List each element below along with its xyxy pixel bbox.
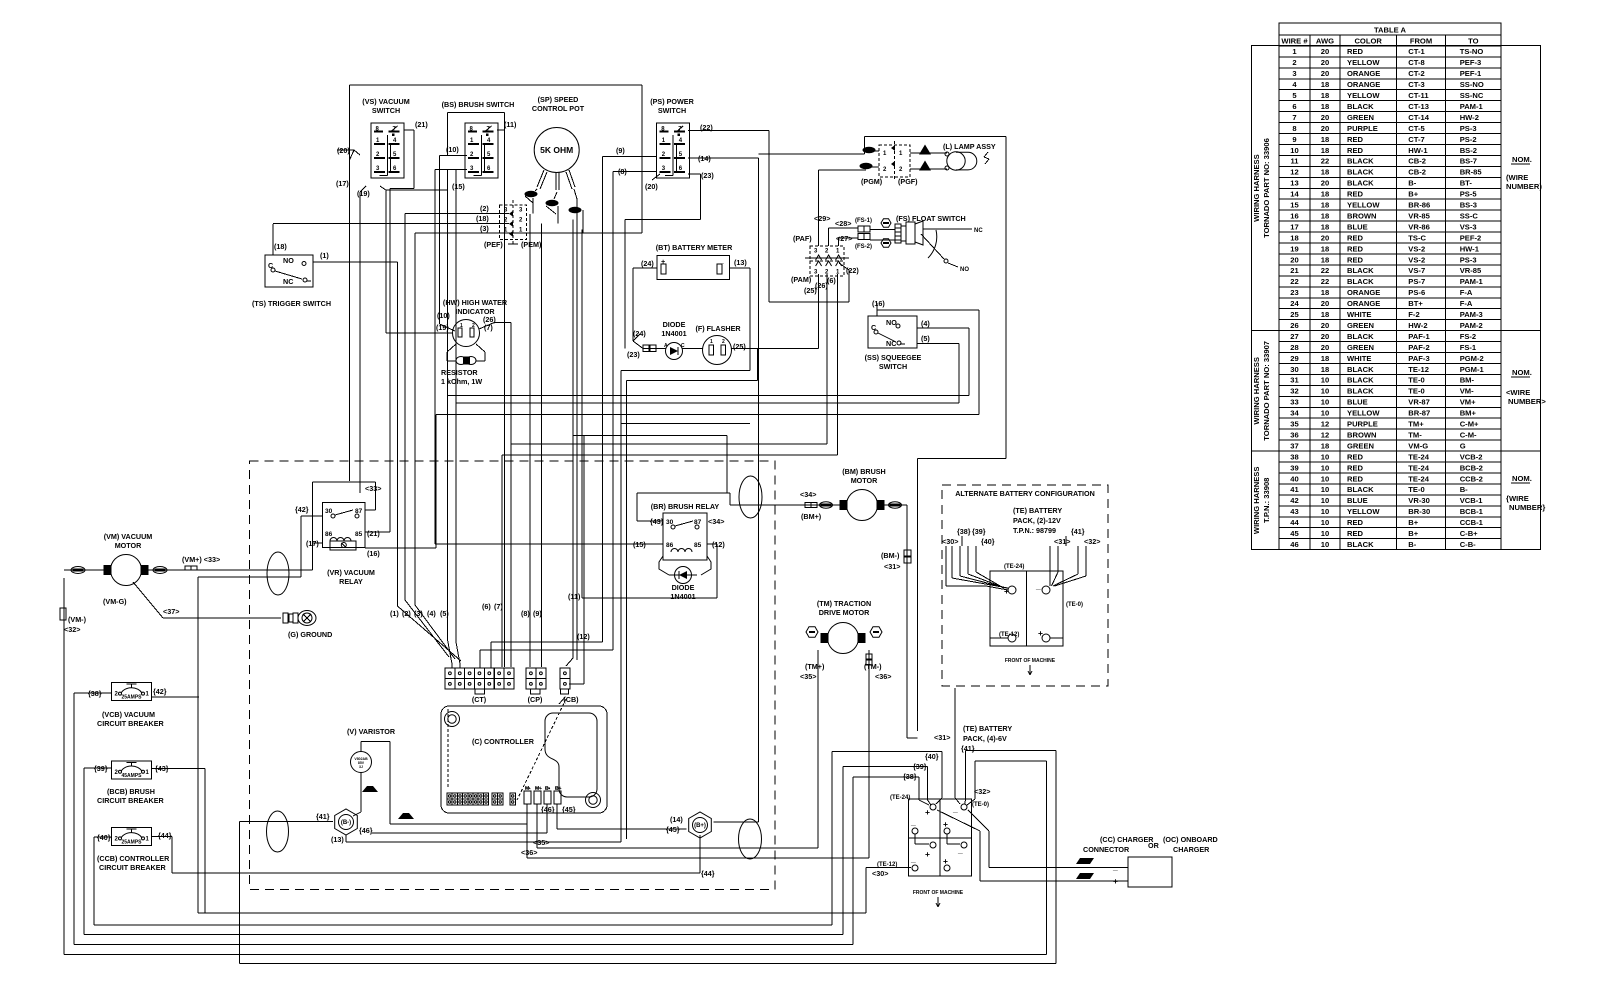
svg-text:86: 86 [325, 531, 333, 538]
svg-text:ORANGE: ORANGE [1347, 80, 1380, 89]
svg-text:CB-2: CB-2 [1408, 157, 1426, 166]
svg-text:32: 32 [1290, 387, 1298, 396]
svg-text:BLACK: BLACK [1347, 168, 1374, 177]
svg-text:(22): (22) [700, 123, 713, 132]
svg-text:1: 1 [146, 770, 150, 776]
svg-text:(23): (23) [701, 171, 714, 180]
svg-text:20: 20 [1290, 255, 1298, 264]
svg-text:25AMPS: 25AMPS [121, 695, 142, 701]
svg-text:{WIRE: {WIRE [1506, 494, 1529, 503]
svg-text:(18): (18) [476, 214, 489, 223]
svg-text:(25): (25) [804, 286, 817, 295]
svg-text:18: 18 [1321, 211, 1329, 220]
svg-text:(18): (18) [274, 242, 287, 251]
svg-text:1: 1 [836, 249, 840, 255]
svg-text:(TM+): (TM+) [805, 662, 825, 671]
svg-text:BS-2: BS-2 [1460, 146, 1477, 155]
svg-text:42: 42 [1290, 496, 1298, 505]
svg-text:BLACK: BLACK [1347, 376, 1374, 385]
svg-text:VS-2: VS-2 [1408, 255, 1425, 264]
svg-text:PAM-1: PAM-1 [1460, 102, 1484, 111]
svg-text:TORNADO PART NO: 33907: TORNADO PART NO: 33907 [1262, 341, 1271, 441]
svg-text:21: 21 [1290, 266, 1299, 275]
svg-text:NO: NO [283, 256, 294, 265]
svg-text:41: 41 [1290, 485, 1299, 494]
svg-text:(9): (9) [533, 609, 542, 618]
svg-text:T.P.N.: 98799: T.P.N.: 98799 [1013, 526, 1056, 535]
svg-text:SWITCH: SWITCH [879, 362, 907, 371]
svg-text:<WIRE: <WIRE [1506, 388, 1530, 397]
svg-text:11: 11 [1290, 157, 1299, 166]
svg-text:17: 17 [1290, 222, 1298, 231]
svg-text:TE-24: TE-24 [1408, 474, 1429, 483]
svg-text:BCB-1: BCB-1 [1460, 507, 1484, 516]
svg-text:20: 20 [1321, 321, 1329, 330]
svg-text:NC: NC [886, 339, 896, 348]
svg-text:PAM-2: PAM-2 [1460, 321, 1483, 330]
svg-text:44: 44 [1290, 518, 1299, 527]
svg-text:(PGM): (PGM) [861, 177, 883, 186]
svg-text:18: 18 [1321, 135, 1329, 144]
svg-text:ORANGE: ORANGE [1347, 299, 1380, 308]
svg-text:{43}: {43} [650, 517, 664, 526]
svg-text:CT-13: CT-13 [1408, 102, 1429, 111]
svg-text:VR-87: VR-87 [1408, 398, 1430, 407]
svg-text:(BT) BATTERY METER: (BT) BATTERY METER [656, 243, 733, 252]
svg-text:2: 2 [883, 167, 887, 173]
svg-text:RED: RED [1347, 452, 1364, 461]
svg-text:M-: M- [525, 786, 531, 792]
svg-text:(FS-1): (FS-1) [855, 218, 872, 224]
svg-text:(4): (4) [427, 609, 436, 618]
svg-text:25AMPS: 25AMPS [121, 839, 142, 845]
svg-text:<31>: <31> [1054, 537, 1070, 546]
svg-text:3: 3 [814, 249, 818, 255]
svg-text:36: 36 [1290, 430, 1298, 439]
svg-text:10: 10 [1321, 463, 1329, 472]
svg-text:1N4001: 1N4001 [670, 592, 695, 601]
svg-text:(16): (16) [872, 299, 885, 308]
svg-text:CONTROL POT: CONTROL POT [532, 104, 585, 113]
svg-text:OR: OR [1148, 841, 1160, 850]
svg-text:2: 2 [472, 323, 475, 329]
svg-text:20: 20 [1321, 343, 1329, 352]
svg-text:PGM-1: PGM-1 [1460, 365, 1485, 374]
svg-text:10: 10 [1321, 409, 1329, 418]
svg-text:40: 40 [1290, 474, 1298, 483]
svg-text:NO: NO [886, 318, 897, 327]
svg-text:VCB-2: VCB-2 [1460, 452, 1483, 461]
svg-text:+: + [1038, 628, 1043, 638]
svg-text:TM-: TM- [1408, 430, 1422, 439]
svg-text:18: 18 [1321, 91, 1329, 100]
svg-text:(20): (20) [337, 146, 350, 155]
svg-text:(8): (8) [618, 167, 627, 176]
svg-text:FROM: FROM [1410, 36, 1432, 45]
svg-text:4: 4 [679, 138, 683, 144]
svg-text:2: 2 [825, 249, 829, 255]
svg-text:CIRCUIT BREAKER: CIRCUIT BREAKER [99, 863, 166, 872]
svg-text:CB-2: CB-2 [1408, 168, 1426, 177]
svg-text:(TE) BATTERY: (TE) BATTERY [1013, 506, 1062, 515]
svg-text:TO: TO [1468, 36, 1479, 45]
svg-text:PACK, (2)-12V: PACK, (2)-12V [1013, 516, 1061, 525]
svg-text:_: _ [957, 845, 963, 855]
svg-text:3: 3 [504, 207, 508, 213]
svg-text:YELLOW: YELLOW [1347, 201, 1380, 210]
svg-text:20: 20 [1321, 113, 1329, 122]
svg-text:CONNECTOR: CONNECTOR [1083, 845, 1130, 854]
svg-text:16: 16 [1290, 211, 1298, 220]
svg-text:2: 2 [115, 692, 119, 698]
svg-text:2: 2 [1292, 58, 1296, 67]
svg-text:C-B-: C-B- [1460, 540, 1476, 549]
svg-text:3: 3 [662, 166, 666, 172]
svg-text:<29>: <29> [814, 214, 830, 223]
svg-text:PS-5: PS-5 [1460, 190, 1478, 199]
svg-text:RELAY: RELAY [339, 577, 363, 586]
svg-text:2: 2 [662, 152, 666, 158]
svg-text:2: 2 [519, 217, 523, 223]
svg-text:10: 10 [1321, 452, 1329, 461]
svg-text:(CC) CHARGER: (CC) CHARGER [1100, 835, 1154, 844]
svg-text:SS-NO: SS-NO [1460, 80, 1484, 89]
svg-text:F-A: F-A [1460, 299, 1473, 308]
svg-text:(VS) VACUUM: (VS) VACUUM [362, 97, 409, 106]
svg-text:(6): (6) [482, 602, 491, 611]
svg-text:28: 28 [1290, 343, 1298, 352]
svg-text:{46}: {46} [541, 805, 555, 814]
svg-text:<33>: <33> [365, 484, 381, 493]
svg-text:YELLOW: YELLOW [1347, 91, 1380, 100]
svg-text:VS-2: VS-2 [1408, 244, 1425, 253]
svg-text:PS-2: PS-2 [1460, 135, 1477, 144]
svg-text:<30>: <30> [872, 869, 888, 878]
svg-text:COLOR: COLOR [1354, 36, 1382, 45]
svg-text:(17): (17) [336, 179, 349, 188]
svg-text:<36>: <36> [521, 848, 537, 857]
svg-text:BLACK: BLACK [1347, 102, 1374, 111]
svg-text:{40}: {40} [925, 752, 939, 761]
svg-text:(8): (8) [521, 609, 530, 618]
svg-text:10: 10 [1321, 376, 1329, 385]
svg-text:FRONT OF MACHINE: FRONT OF MACHINE [1005, 658, 1056, 664]
svg-text:NUMBER): NUMBER) [1506, 182, 1542, 191]
svg-text:VS-7: VS-7 [1408, 266, 1425, 275]
svg-text:GREEN: GREEN [1347, 113, 1374, 122]
svg-text:10: 10 [1321, 529, 1329, 538]
svg-text:BLACK: BLACK [1347, 157, 1374, 166]
svg-text:NUMBER}: NUMBER} [1509, 503, 1545, 512]
svg-text:18: 18 [1321, 146, 1329, 155]
svg-text:BS-3: BS-3 [1460, 201, 1477, 210]
svg-text:RED: RED [1347, 474, 1364, 483]
svg-text:5: 5 [1292, 91, 1297, 100]
svg-text:WHITE: WHITE [1347, 354, 1371, 363]
svg-text:1: 1 [1292, 47, 1297, 56]
svg-text:(7): (7) [494, 602, 503, 611]
svg-text:(SS) SQUEEGEE: (SS) SQUEEGEE [865, 353, 922, 362]
svg-text:1: 1 [146, 692, 150, 698]
svg-text:WHITE: WHITE [1347, 310, 1371, 319]
svg-text:1: 1 [146, 836, 150, 842]
svg-text:1: 1 [836, 270, 840, 276]
svg-text:(VM+) <33>: (VM+) <33> [182, 555, 220, 564]
svg-text:(PAF): (PAF) [793, 234, 812, 243]
svg-text:{44}: {44} [158, 831, 172, 840]
svg-text:2: 2 [115, 836, 119, 842]
svg-text:45AMPS: 45AMPS [121, 773, 142, 779]
svg-text:<32>: <32> [64, 625, 80, 634]
svg-text:<34>: <34> [708, 517, 724, 526]
svg-text:<35>: <35> [800, 672, 816, 681]
svg-text:B+: B+ [1408, 190, 1418, 199]
svg-text:F-A: F-A [1460, 288, 1473, 297]
svg-text:{44}: {44} [701, 869, 715, 878]
svg-text:(2): (2) [480, 204, 489, 213]
svg-text:(11): (11) [568, 592, 581, 601]
svg-text:(BR) BRUSH RELAY: (BR) BRUSH RELAY [651, 502, 720, 511]
svg-text:<31>: <31> [934, 733, 950, 742]
svg-text:HW-1: HW-1 [1408, 146, 1428, 155]
svg-text:RED: RED [1347, 255, 1364, 264]
svg-text:<37>: <37> [163, 607, 179, 616]
svg-text:(TS) TRIGGER SWITCH: (TS) TRIGGER SWITCH [252, 299, 331, 308]
svg-text:CT-8: CT-8 [1408, 58, 1424, 67]
svg-text:GREEN: GREEN [1347, 441, 1374, 450]
svg-text:18: 18 [1321, 310, 1329, 319]
svg-text:4: 4 [1292, 80, 1297, 89]
svg-text:YELLOW: YELLOW [1347, 58, 1380, 67]
svg-text:20: 20 [1321, 124, 1329, 133]
svg-text:PS-7: PS-7 [1408, 277, 1425, 286]
svg-text:33: 33 [1290, 398, 1298, 407]
svg-text:_: _ [910, 817, 916, 827]
svg-text:(15): (15) [633, 540, 646, 549]
svg-text:(VCB) VACUUM: (VCB) VACUUM [102, 710, 155, 719]
svg-text:NC: NC [283, 277, 293, 286]
svg-text:(TE-0): (TE-0) [972, 802, 989, 808]
svg-text:(PGF): (PGF) [898, 177, 918, 186]
svg-text:_: _ [952, 804, 958, 814]
svg-text:15: 15 [1290, 201, 1299, 210]
svg-text:{41}: {41} [1071, 527, 1085, 536]
svg-text:CIRCUIT BREAKER: CIRCUIT BREAKER [97, 796, 164, 805]
svg-text:BLACK: BLACK [1347, 540, 1374, 549]
svg-text:{41}: {41} [316, 812, 330, 821]
svg-text:6: 6 [1292, 102, 1296, 111]
svg-text:SS-NC: SS-NC [1460, 91, 1484, 100]
svg-text:2: 2 [470, 152, 474, 158]
svg-text:DIODE: DIODE [663, 320, 686, 329]
svg-text:(VR) VACUUM: (VR) VACUUM [327, 568, 375, 577]
svg-text:WIRING HARNESS: WIRING HARNESS [1252, 154, 1261, 222]
svg-text:B-: B- [1408, 540, 1416, 549]
svg-text:(19): (19) [436, 323, 449, 332]
svg-text:20: 20 [1321, 332, 1329, 341]
svg-text:{38}: {38} [88, 689, 102, 698]
svg-text:(14): (14) [698, 154, 711, 163]
svg-text:(21): (21) [415, 120, 428, 129]
svg-text:6: 6 [679, 166, 683, 172]
svg-text:BLUE: BLUE [1347, 398, 1368, 407]
svg-text:20: 20 [1321, 233, 1329, 242]
svg-text:(9): (9) [616, 146, 625, 155]
svg-text:(10): (10) [437, 311, 450, 320]
svg-text:(VM) VACUUM: (VM) VACUUM [104, 532, 153, 541]
svg-text:CCB-2: CCB-2 [1460, 474, 1483, 483]
svg-text:BROWN: BROWN [1347, 430, 1377, 439]
svg-text:C: C [268, 261, 273, 270]
svg-text:10: 10 [1321, 398, 1329, 407]
svg-text:RESISTOR: RESISTOR [441, 368, 478, 377]
svg-text:RED: RED [1347, 190, 1364, 199]
svg-text:RED: RED [1347, 244, 1364, 253]
svg-text:A: A [664, 343, 668, 349]
svg-text:PAM-3: PAM-3 [1460, 310, 1483, 319]
svg-text:BT-: BT- [1460, 179, 1473, 188]
svg-text:(17): (17) [306, 539, 319, 548]
svg-text:(12): (12) [577, 632, 590, 641]
svg-text:46: 46 [1290, 540, 1298, 549]
svg-text:(TE-24): (TE-24) [1004, 564, 1024, 570]
svg-text:(TE-12): (TE-12) [877, 862, 897, 868]
svg-text:(VM-G): (VM-G) [103, 597, 127, 606]
svg-text:AWG: AWG [1316, 36, 1334, 45]
svg-text:(TE-0): (TE-0) [1066, 602, 1083, 608]
svg-text:{38}: {38} [957, 527, 971, 536]
svg-text:TABLE A: TABLE A [1374, 25, 1407, 34]
svg-text:{45}: {45} [562, 805, 576, 814]
svg-text:BR-30: BR-30 [1408, 507, 1430, 516]
svg-text:27: 27 [1290, 332, 1298, 341]
svg-text:(19): (19) [357, 189, 370, 198]
svg-text:(CCB) CONTROLLER: (CCB) CONTROLLER [97, 854, 170, 863]
svg-text:{39}: {39} [94, 764, 108, 773]
svg-text:WIRING HARNESS: WIRING HARNESS [1252, 357, 1261, 425]
svg-text:VM-G: VM-G [1408, 441, 1428, 450]
svg-text:5: 5 [679, 152, 683, 158]
svg-text:(14): (14) [670, 815, 683, 824]
svg-text:(G) GROUND: (G) GROUND [288, 630, 332, 639]
svg-text:VS-3: VS-3 [1460, 222, 1477, 231]
svg-text:2: 2 [899, 167, 903, 173]
svg-text:9: 9 [1292, 135, 1296, 144]
svg-text:(PEM): (PEM) [521, 240, 542, 249]
svg-text:22: 22 [1321, 277, 1329, 286]
svg-text:38: 38 [1290, 452, 1298, 461]
svg-text:18: 18 [1321, 80, 1329, 89]
svg-text:<36>: <36> [875, 672, 891, 681]
svg-text:10: 10 [1321, 507, 1329, 516]
svg-text:RED: RED [1347, 135, 1364, 144]
svg-text:NOM.: NOM. [1512, 155, 1532, 164]
svg-text:PEF-2: PEF-2 [1460, 233, 1482, 242]
svg-text:FS-2: FS-2 [1460, 332, 1476, 341]
svg-text:YELLOW: YELLOW [1347, 507, 1380, 516]
svg-text:DRIVE MOTOR: DRIVE MOTOR [819, 608, 870, 617]
svg-text:20: 20 [1321, 299, 1329, 308]
svg-text:<28>: <28> [835, 219, 851, 228]
svg-text:(VM-): (VM-) [68, 615, 87, 624]
svg-text:WIRE #: WIRE # [1281, 36, 1308, 45]
svg-text:NOM.: NOM. [1512, 368, 1532, 377]
svg-text:18: 18 [1321, 201, 1329, 210]
svg-text:(L) LAMP ASSY: (L) LAMP ASSY [943, 142, 996, 151]
svg-text:BR-87: BR-87 [1408, 409, 1430, 418]
svg-text:+: + [925, 807, 930, 817]
svg-text:34: 34 [1290, 409, 1299, 418]
svg-text:(V) VARISTOR: (V) VARISTOR [347, 727, 396, 736]
svg-text:(25): (25) [733, 342, 746, 351]
svg-text:8: 8 [1292, 124, 1296, 133]
svg-text:3: 3 [519, 207, 523, 213]
svg-text:DIODE: DIODE [672, 583, 695, 592]
svg-text:(BM-): (BM-) [881, 551, 900, 560]
svg-text:CT-11: CT-11 [1408, 91, 1429, 100]
svg-text:(12): (12) [712, 540, 725, 549]
svg-text:VR-85: VR-85 [1460, 266, 1482, 275]
svg-text:4: 4 [393, 138, 397, 144]
svg-text:_: _ [1035, 581, 1041, 591]
svg-text:RED: RED [1347, 463, 1364, 472]
svg-text:ORANGE: ORANGE [1347, 69, 1380, 78]
svg-text:(TE-24): (TE-24) [890, 795, 910, 801]
svg-text:<34>: <34> [800, 490, 816, 499]
svg-text:C-B+: C-B+ [1460, 529, 1478, 538]
svg-text:31: 31 [1290, 376, 1299, 385]
svg-text:BLACK: BLACK [1347, 387, 1374, 396]
svg-text:SS-C: SS-C [1460, 211, 1479, 220]
svg-text:22: 22 [1290, 277, 1298, 286]
svg-text:C: C [681, 343, 685, 349]
svg-text:18: 18 [1321, 102, 1329, 111]
svg-text:<35>: <35> [533, 838, 549, 847]
svg-text:PEF-1: PEF-1 [1460, 69, 1482, 78]
svg-text:T.P.N.: 33908: T.P.N.: 33908 [1262, 478, 1271, 523]
svg-text:(TE) BATTERY: (TE) BATTERY [963, 724, 1012, 733]
svg-text:2: 2 [722, 339, 725, 345]
svg-text:SWITCH: SWITCH [372, 106, 400, 115]
svg-text:VR-85: VR-85 [1408, 211, 1430, 220]
svg-text:GREEN: GREEN [1347, 343, 1374, 352]
svg-text:10: 10 [1321, 474, 1329, 483]
svg-text:10: 10 [1321, 485, 1329, 494]
svg-text:1 kOhm, 1W: 1 kOhm, 1W [441, 377, 482, 386]
svg-text:30: 30 [1290, 365, 1298, 374]
svg-text:19: 19 [1290, 244, 1298, 253]
svg-text:22: 22 [1321, 266, 1329, 275]
svg-text:(2): (2) [402, 609, 411, 618]
svg-text:20: 20 [1321, 47, 1329, 56]
svg-text:3: 3 [470, 166, 474, 172]
svg-text:CT-3: CT-3 [1408, 80, 1424, 89]
svg-text:BLACK: BLACK [1347, 266, 1374, 275]
svg-text:{42}: {42} [295, 505, 309, 514]
svg-text:BM+: BM+ [1460, 409, 1477, 418]
svg-text:ORANGE: ORANGE [1347, 288, 1380, 297]
svg-text:VCB-1: VCB-1 [1460, 496, 1484, 505]
svg-text:M+: M+ [535, 786, 542, 792]
svg-text:5K OHM: 5K OHM [540, 145, 573, 155]
svg-text:MOTOR: MOTOR [851, 476, 878, 485]
svg-text:VR-30: VR-30 [1408, 496, 1430, 505]
svg-text:{45}: {45} [666, 825, 680, 834]
svg-text:(BM) BRUSH: (BM) BRUSH [842, 467, 886, 476]
svg-text:3J: 3J [359, 765, 363, 769]
svg-text:VM+: VM+ [1460, 398, 1476, 407]
svg-text:TE-0: TE-0 [1408, 387, 1424, 396]
